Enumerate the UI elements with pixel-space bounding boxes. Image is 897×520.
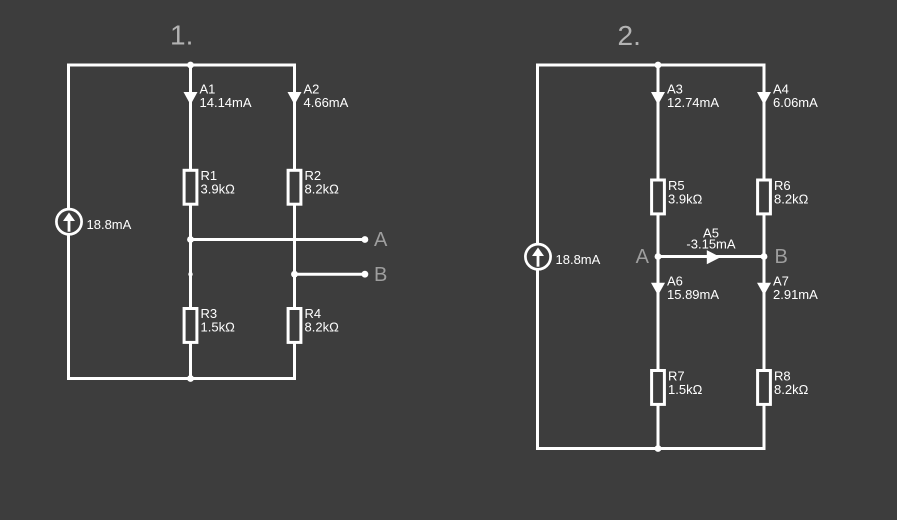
svg-text:8.2kΩ: 8.2kΩ [305, 320, 340, 335]
ammeter arrow A6 [651, 274, 719, 303]
resistor R1 3.9k [184, 168, 235, 204]
junction node A circuit 2 [655, 253, 662, 260]
svg-text:2.: 2. [618, 20, 641, 51]
svg-text:-3.15mA: -3.15mA [686, 237, 735, 252]
svg-text:3.9kΩ: 3.9kΩ [201, 182, 236, 197]
resistor R5 3.9k [652, 178, 703, 214]
svg-text:8.2kΩ: 8.2kΩ [305, 182, 340, 197]
wire outer loop circuit 1 (top, left, bottom rails and branch 2 right side) [69, 65, 295, 379]
svg-text:B: B [374, 264, 387, 286]
svg-text:12.74mA: 12.74mA [667, 95, 719, 110]
svg-text:8.2kΩ: 8.2kΩ [774, 192, 809, 207]
resistor R6 8.2k [758, 178, 809, 214]
ammeter arrow A4 [757, 82, 818, 110]
svg-text:15.89mA: 15.89mA [667, 287, 719, 302]
svg-text:3.9kΩ: 3.9kΩ [668, 192, 703, 207]
svg-text:1.5kΩ: 1.5kΩ [201, 320, 236, 335]
node A terminal dot [362, 236, 369, 243]
svg-text:2.91mA: 2.91mA [773, 287, 818, 302]
ammeter arrow A7 [757, 274, 818, 303]
resistor R7 1.5k [652, 369, 703, 405]
wire node A horizontal circuit 1 [191, 238, 365, 241]
wire A to B horizontal circuit 2 [658, 255, 764, 258]
junction bottom branch A [655, 445, 662, 452]
junction bottom branch 1 [187, 375, 194, 382]
svg-text:18.8mA: 18.8mA [87, 217, 132, 232]
resistor R3 1.5k [184, 306, 235, 342]
svg-text:18.8mA: 18.8mA [556, 252, 601, 267]
svg-text:A: A [636, 246, 650, 268]
junction top branch A [655, 62, 662, 69]
current source I2 18.8mA [525, 244, 600, 269]
svg-text:1.5kΩ: 1.5kΩ [668, 382, 703, 397]
ammeter arrow A5 [686, 226, 735, 265]
svg-text:B: B [775, 246, 788, 268]
wire node B horizontal circuit 1 [295, 273, 365, 276]
current source I1 18.8mA [56, 209, 131, 234]
resistor R2 8.2k [288, 168, 339, 204]
ammeter arrow A3 [651, 82, 719, 110]
resistor R8 8.2k [758, 369, 809, 405]
ammeter arrow A1 [184, 82, 252, 110]
junction node B circuit 2 [761, 253, 768, 260]
svg-text:6.06mA: 6.06mA [773, 95, 818, 110]
wire branch 1 vertical circuit 1 [189, 65, 192, 379]
junction mid branch 1 [187, 236, 194, 243]
connection post branch 1 [188, 272, 193, 277]
wire branch A vertical circuit 2 [657, 65, 660, 449]
svg-text:1.: 1. [170, 20, 193, 51]
junction node B branch 2 [291, 271, 298, 278]
junction top branch 1 [187, 62, 194, 69]
node B terminal dot [362, 271, 369, 278]
svg-text:8.2kΩ: 8.2kΩ [774, 382, 809, 397]
resistor R4 8.2k [288, 306, 339, 342]
ammeter arrow A2 [288, 82, 349, 110]
svg-text:14.14mA: 14.14mA [200, 95, 252, 110]
svg-text:4.66mA: 4.66mA [304, 95, 349, 110]
svg-text:A: A [374, 229, 388, 251]
wire outer loop circuit 2 (top, left, bottom rails and branch B right side) [538, 65, 765, 449]
